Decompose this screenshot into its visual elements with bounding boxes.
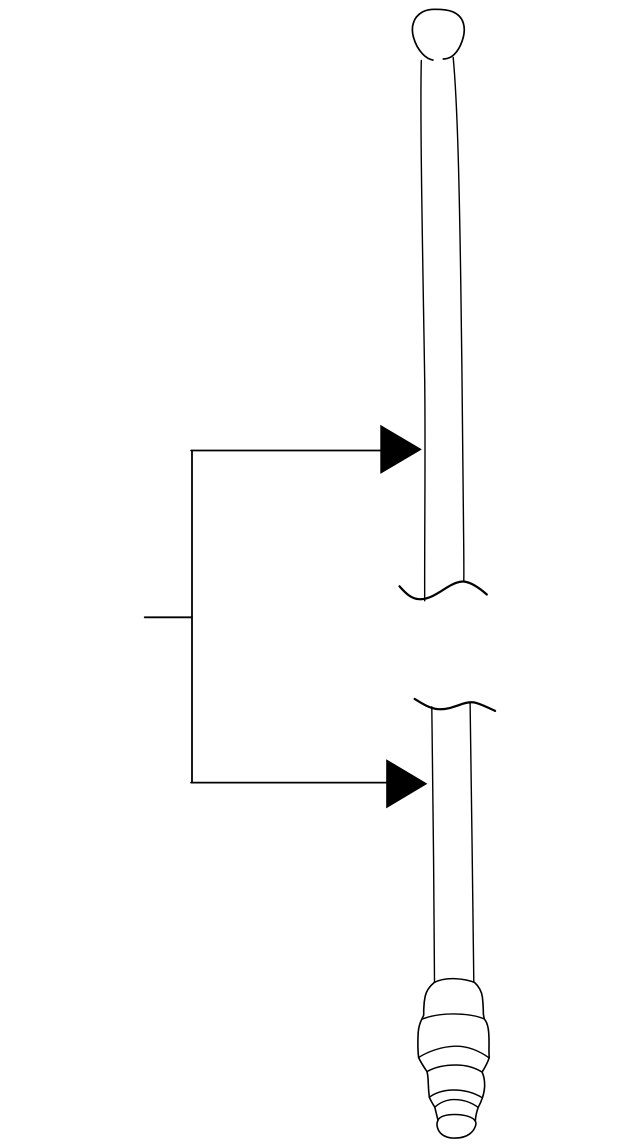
arrowhead lower <box>386 759 427 808</box>
upper mast right edge <box>453 58 464 582</box>
base outer silhouette <box>418 982 489 1138</box>
upper mast left edge <box>421 61 425 601</box>
base collar top arc <box>435 979 475 983</box>
base thread arc 2 <box>429 1090 482 1098</box>
base body lower arc <box>419 1046 490 1058</box>
base thread arc 3 <box>435 1100 478 1108</box>
upper break wave <box>400 581 487 599</box>
lower mast left edge <box>432 707 435 982</box>
callout bottom horizontal <box>191 782 387 784</box>
callout top horizontal <box>191 450 381 452</box>
arrowhead upper <box>380 425 422 474</box>
base tip rim arc <box>438 1114 475 1121</box>
base arc between collar and body <box>422 1014 484 1019</box>
antenna ball tip <box>412 9 464 60</box>
callout leader stub <box>145 616 192 618</box>
base thread arc 1 <box>427 1065 482 1072</box>
callout bracket vertical <box>191 451 193 783</box>
lower mast right edge <box>470 703 474 981</box>
lower break wave <box>415 699 496 711</box>
